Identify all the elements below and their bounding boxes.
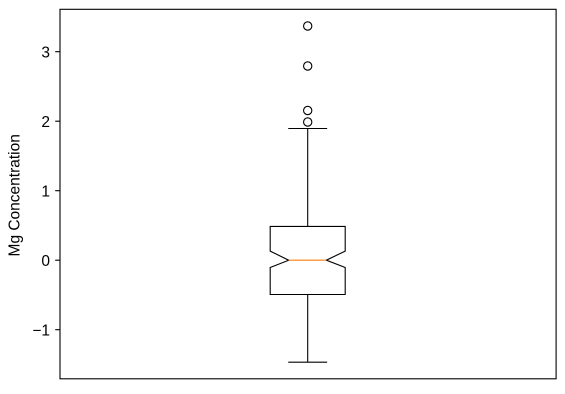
lower whisker	[307, 295, 309, 363]
y tick 2	[41, 114, 60, 131]
flier 2	[304, 62, 312, 70]
median line	[289, 259, 327, 261]
y tick -1	[32, 323, 60, 340]
flier 3	[304, 106, 312, 114]
svg-text:3: 3	[41, 45, 50, 62]
y tick 0	[41, 253, 60, 270]
upper whisker	[307, 129, 309, 227]
flier 1	[304, 22, 312, 30]
y tick 3	[41, 45, 60, 62]
notched box	[270, 226, 345, 294]
svg-text:−1: −1	[32, 323, 50, 340]
lower cap	[288, 361, 327, 363]
svg-text:Mg Concentration: Mg Concentration	[7, 134, 24, 256]
y tick 1	[41, 184, 60, 201]
upper cap	[288, 128, 327, 130]
svg-text:1: 1	[41, 184, 50, 201]
svg-text:2: 2	[41, 114, 50, 131]
svg-text:0: 0	[41, 253, 50, 270]
flier 4	[304, 118, 312, 126]
